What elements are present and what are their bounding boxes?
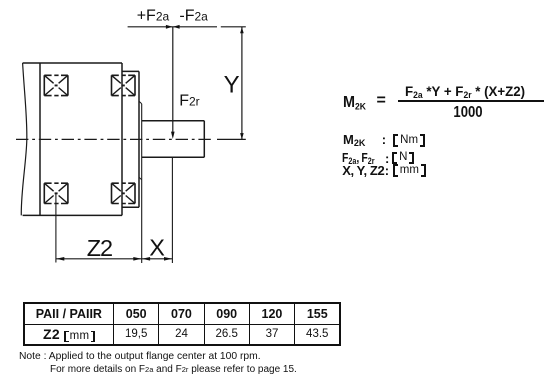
arrowhead Z2 right / X left pair [133, 257, 141, 261]
Y dimension line [241, 27, 243, 140]
bearing top-left [44, 75, 68, 95]
formula numerator F2a*Y + F2r*(X+Z2) [405, 84, 525, 102]
fraction bar [398, 100, 544, 102]
svg-text:X: X [149, 235, 165, 261]
arrowheads +F2a / -F2a bowtie [166, 25, 173, 29]
centerline (dash-dot axis) [16, 138, 213, 140]
housing body outline [23, 63, 122, 215]
formula denominator 1000 [443, 105, 492, 121]
legend row M2K : [Nm] [343, 133, 365, 150]
arrowhead Z2 left [56, 257, 64, 261]
output flange outline [122, 71, 139, 207]
svg-text:Y: Y [224, 71, 240, 98]
equals sign [377, 92, 386, 110]
table PAII/PAIIR + Z2 values [23, 302, 342, 346]
Z2 / X dimension line [56, 258, 172, 260]
bearing top-right [112, 75, 136, 95]
arrowhead X right [164, 257, 172, 261]
formula M2K [343, 95, 366, 116]
F2r force arrow below shaft extension [171, 157, 173, 263]
svg-text:-F2a: -F2a [179, 7, 208, 24]
legend row F2a,F2r : [N] [342, 151, 375, 168]
top axial force reference line [128, 26, 246, 28]
bearing bottom-left [44, 183, 68, 203]
svg-text:F2r: F2r [179, 92, 199, 109]
note line 1 [19, 351, 261, 362]
housing break (wavy) line [21, 63, 27, 215]
arrowhead F2r (down, at centerline) [171, 132, 175, 139]
legend row X,Y,Z2 : [mm] [342, 164, 384, 177]
note line 2 [50, 364, 297, 375]
shaft outline [142, 121, 205, 158]
arrowhead Y top [240, 27, 244, 33]
Z2 left extension line (bearing center) [55, 194, 57, 263]
svg-text:+F2a: +F2a [137, 7, 170, 24]
F2a force axis vertical line [172, 27, 174, 132]
flange pilot lip + extension line [139, 101, 142, 180]
arrowhead Y bottom [240, 133, 244, 139]
svg-text:Z2: Z2 [87, 235, 112, 261]
bearing bottom-right [112, 183, 136, 203]
